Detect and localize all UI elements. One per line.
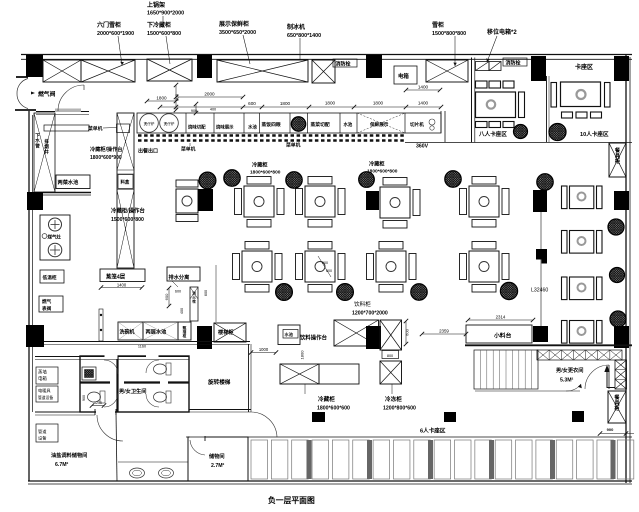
cabinet bbox=[178, 322, 191, 340]
dim row 2 bbox=[160, 106, 441, 108]
svg-text:煲仔炉: 煲仔炉 bbox=[144, 121, 155, 126]
band stripes bbox=[251, 440, 268, 479]
svg-text:饮料柜: 饮料柜 bbox=[354, 300, 371, 308]
svg-text:煤气灶: 煤气灶 bbox=[48, 234, 62, 241]
svg-text:冷藏柜: 冷藏柜 bbox=[369, 160, 385, 168]
column bbox=[614, 56, 629, 81]
svg-text:600: 600 bbox=[248, 101, 256, 106]
svg-text:600: 600 bbox=[204, 290, 208, 296]
svg-text:两菜水池: 两菜水池 bbox=[58, 178, 80, 186]
svg-text:电箱: 电箱 bbox=[398, 72, 409, 80]
hatched table bbox=[500, 282, 517, 299]
cart cabinet bbox=[608, 391, 626, 423]
grease separator 排水分离 bbox=[167, 267, 200, 281]
svg-text:排水分离: 排水分离 bbox=[169, 273, 190, 281]
wall cabinet with cross brace bbox=[609, 143, 626, 177]
worktop strip 冷藏柜/操作台 bbox=[117, 113, 134, 268]
svg-text:水池: 水池 bbox=[247, 124, 257, 131]
svg-text:八人卡座区: 八人卡座区 bbox=[478, 130, 507, 138]
drink counter 饮料操作台 bbox=[278, 325, 300, 345]
toilet bbox=[88, 391, 106, 403]
half column bbox=[536, 249, 547, 260]
column bbox=[26, 325, 44, 347]
svg-text:冷藏柜/操作台: 冷藏柜/操作台 bbox=[90, 145, 123, 153]
svg-text:移位电箱*2: 移位电箱*2 bbox=[487, 28, 517, 36]
svg-text:低温柜: 低温柜 bbox=[42, 274, 57, 281]
svg-text:2314: 2314 bbox=[496, 315, 506, 320]
gas meter 燃气表阀 bbox=[39, 296, 63, 312]
box 烧味切配 bbox=[185, 113, 187, 133]
svg-text:烧味展示: 烧味展示 bbox=[216, 124, 234, 131]
svg-text:2359: 2359 bbox=[439, 329, 449, 334]
band top line bbox=[186, 436, 632, 438]
svg-text:蒸笼4层: 蒸笼4层 bbox=[105, 273, 126, 281]
box 水池 bbox=[243, 113, 245, 133]
svg-text:卡座区: 卡座区 bbox=[575, 63, 593, 71]
stair direction arrow bbox=[475, 390, 580, 392]
booth table bbox=[562, 231, 603, 254]
svg-text:400: 400 bbox=[180, 308, 184, 314]
top-left door vestibule stub walls bbox=[16, 76, 28, 78]
svg-text:6.7M²: 6.7M² bbox=[55, 462, 69, 468]
hatched pot bbox=[291, 117, 305, 131]
wash basins bbox=[130, 468, 145, 478]
gray pass bar bbox=[55, 109, 81, 113]
svg-text:烧味切配: 烧味切配 bbox=[188, 124, 206, 131]
restroom exit door bbox=[96, 410, 115, 415]
svg-text:菜单机: 菜单机 bbox=[285, 142, 301, 149]
small dims bbox=[168, 288, 170, 306]
X counter left bbox=[280, 364, 319, 384]
svg-text:下冷藏柜: 下冷藏柜 bbox=[147, 21, 171, 29]
svg-text:2000: 2000 bbox=[204, 92, 215, 97]
svg-text:男/女更衣间: 男/女更衣间 bbox=[556, 366, 583, 374]
svg-text:料盒: 料盒 bbox=[121, 179, 130, 186]
svg-text:切片机: 切片机 bbox=[410, 121, 424, 128]
bottom outer wall bbox=[28, 480, 632, 482]
booth table bbox=[562, 277, 603, 300]
shelf unit bbox=[43, 60, 81, 82]
svg-text:保鲜展示: 保鲜展示 bbox=[369, 121, 389, 128]
restroom block 男/女卫生间 bbox=[80, 356, 189, 412]
leader lines from labels bbox=[118, 36, 122, 65]
shaft with X brace and vertical text bbox=[34, 113, 55, 192]
table cluster bbox=[460, 177, 510, 228]
svg-text:1800*600*600: 1800*600*600 bbox=[317, 406, 350, 412]
hatched table bbox=[411, 284, 427, 300]
svg-text:煲仔炉: 煲仔炉 bbox=[164, 121, 175, 126]
dark dividers bbox=[307, 440, 312, 479]
svg-text:600: 600 bbox=[322, 261, 328, 265]
column bbox=[197, 326, 212, 349]
table cluster bbox=[296, 242, 346, 293]
storage room 储物间 bbox=[188, 437, 248, 481]
box 蒸菜切配 bbox=[307, 113, 309, 133]
column bbox=[198, 189, 213, 211]
hatched strip bbox=[476, 62, 490, 71]
svg-text:管道: 管道 bbox=[38, 428, 47, 435]
column bbox=[533, 326, 548, 342]
top outer wall bbox=[21, 54, 632, 56]
svg-text:900: 900 bbox=[607, 427, 614, 432]
svg-text:900: 900 bbox=[191, 109, 197, 113]
svg-text:柜: 柜 bbox=[182, 333, 187, 338]
small table cluster bbox=[176, 180, 198, 187]
wall below sink bbox=[43, 192, 91, 194]
svg-text:菜单机: 菜单机 bbox=[180, 146, 196, 153]
pass counter dashed band bbox=[138, 134, 405, 137]
table cluster bbox=[367, 242, 417, 293]
column bbox=[26, 55, 43, 77]
counter end wall bbox=[440, 111, 442, 133]
svg-text:冷藏柜/操作台: 冷藏柜/操作台 bbox=[111, 207, 145, 215]
partition wall right of kitchen bbox=[471, 58, 473, 143]
hatched table bbox=[549, 124, 566, 141]
column bbox=[533, 190, 547, 212]
hatched table bbox=[276, 284, 293, 301]
toilet bbox=[154, 391, 172, 403]
svg-text:1400: 1400 bbox=[418, 101, 429, 106]
svg-text:1400: 1400 bbox=[117, 282, 127, 287]
L-shaped counter with X bbox=[334, 320, 379, 346]
svg-text:冷藏柜: 冷藏柜 bbox=[318, 395, 335, 403]
cabinet 低温柜 bbox=[40, 270, 64, 283]
svg-text:1000: 1000 bbox=[259, 347, 269, 352]
svg-text:六门雪柜: 六门雪柜 bbox=[97, 21, 121, 29]
hatched table bbox=[610, 268, 625, 283]
svg-text:1800: 1800 bbox=[300, 350, 305, 360]
svg-text:10人卡座区: 10人卡座区 bbox=[580, 130, 609, 138]
svg-text:电暖具: 电暖具 bbox=[38, 387, 51, 394]
box 烧味展示 bbox=[213, 113, 215, 133]
svg-text:男/女卫生间: 男/女卫生间 bbox=[119, 387, 146, 395]
ice maker 制冰机 bbox=[312, 60, 335, 83]
svg-text:1800: 1800 bbox=[280, 101, 291, 106]
column bbox=[531, 56, 546, 81]
svg-text:600: 600 bbox=[404, 328, 409, 335]
svg-text:400: 400 bbox=[210, 108, 216, 112]
hatched table bbox=[359, 172, 375, 188]
svg-text:蒸菜切配: 蒸菜切配 bbox=[310, 121, 330, 128]
svg-text:2000*600*1900: 2000*600*1900 bbox=[97, 31, 134, 37]
svg-text:蒸饭四眼: 蒸饭四眼 bbox=[261, 121, 281, 128]
electrical box 电箱 bbox=[394, 66, 417, 84]
svg-text:上锅架: 上锅架 bbox=[147, 1, 165, 9]
table cluster bbox=[233, 242, 283, 293]
svg-text:600: 600 bbox=[164, 293, 169, 300]
svg-text:管道设备: 管道设备 bbox=[38, 395, 53, 400]
changing room door arc bbox=[585, 365, 609, 389]
800 spacer box bbox=[382, 351, 399, 359]
svg-text:1800*600*900: 1800*600*900 bbox=[90, 155, 122, 161]
booth table bbox=[562, 321, 603, 344]
counter below entry wall bbox=[44, 125, 89, 131]
svg-text:1800*600*800: 1800*600*800 bbox=[367, 169, 398, 175]
svg-text:650*800*1400: 650*800*1400 bbox=[287, 33, 321, 39]
black unit bbox=[366, 326, 381, 349]
column bbox=[614, 326, 629, 348]
display cabinet 展示保鲜柜 bbox=[217, 60, 308, 82]
dishwasher 洗碗机 bbox=[118, 322, 143, 340]
column bbox=[27, 192, 43, 210]
svg-text:消防栓: 消防栓 bbox=[336, 61, 351, 68]
svg-text:1500*600*800: 1500*600*800 bbox=[111, 217, 144, 223]
svg-text:两层水池: 两层水池 bbox=[146, 328, 168, 336]
svg-text:柜: 柜 bbox=[615, 157, 621, 165]
svg-text:储物间: 储物间 bbox=[209, 452, 225, 460]
serving counter outline bbox=[137, 113, 441, 133]
column bbox=[366, 191, 379, 210]
svg-text:雪柜: 雪柜 bbox=[432, 21, 444, 29]
wall above restroom bbox=[35, 356, 189, 358]
svg-text:栓: 栓 bbox=[192, 299, 196, 304]
floor line right section bbox=[465, 344, 632, 346]
svg-text:井: 井 bbox=[44, 148, 49, 155]
table cluster bbox=[380, 178, 420, 229]
svg-text:1650*900*2000: 1650*900*2000 bbox=[147, 11, 184, 17]
8-person booth 八人卡座区 bbox=[476, 81, 525, 128]
booth table bbox=[562, 186, 603, 209]
wall line bbox=[540, 212, 542, 326]
svg-text:1800: 1800 bbox=[156, 96, 167, 101]
right outer wall bbox=[625, 55, 627, 484]
svg-text:600: 600 bbox=[175, 290, 181, 294]
svg-text:6人卡座区: 6人卡座区 bbox=[420, 427, 446, 435]
small counter 小料台 bbox=[466, 325, 532, 343]
shelf unit bbox=[81, 60, 135, 82]
svg-text:1800*600*800: 1800*600*800 bbox=[250, 170, 281, 176]
table cluster bbox=[460, 242, 510, 293]
svg-text:燃气: 燃气 bbox=[42, 298, 52, 305]
dim 2314 bbox=[468, 319, 533, 321]
escalator lower section bbox=[615, 360, 627, 389]
svg-text:1400: 1400 bbox=[418, 85, 429, 90]
hatched table bbox=[608, 219, 624, 235]
svg-text:L32460: L32460 bbox=[531, 288, 548, 294]
svg-text:1800: 1800 bbox=[373, 101, 384, 106]
escalator strip bbox=[537, 350, 622, 360]
svg-text:管: 管 bbox=[35, 142, 40, 149]
svg-text:900: 900 bbox=[82, 395, 86, 401]
svg-text:冷冻柜: 冷冻柜 bbox=[385, 395, 402, 403]
svg-text:水池: 水池 bbox=[343, 121, 353, 128]
stove 煤气灶 with two burners bbox=[40, 215, 70, 260]
divider wall bbox=[546, 76, 548, 142]
svg-text:5.3M²: 5.3M² bbox=[560, 378, 574, 384]
fire hydrant label box 2 bbox=[503, 58, 527, 66]
shaft strip bbox=[190, 287, 198, 321]
hatched table bbox=[514, 125, 528, 139]
column bbox=[197, 55, 212, 78]
column bbox=[444, 412, 456, 422]
left outer wall lower bbox=[28, 111, 30, 481]
svg-text:旋转楼梯: 旋转楼梯 bbox=[207, 378, 231, 386]
column bbox=[366, 55, 382, 78]
stall door arcs bbox=[104, 360, 118, 374]
steamer 蒸笼4层 bbox=[100, 269, 145, 282]
entry door gaps bbox=[105, 355, 118, 360]
table cluster bbox=[296, 177, 346, 228]
hatched table bbox=[199, 172, 216, 189]
svg-text:1800: 1800 bbox=[325, 101, 336, 106]
wall y=341 bbox=[44, 341, 250, 343]
svg-text:1160: 1160 bbox=[138, 345, 146, 349]
svg-text:柜: 柜 bbox=[614, 404, 620, 412]
svg-text:1500*600*800: 1500*600*800 bbox=[147, 31, 181, 37]
hatched table bbox=[337, 284, 354, 301]
door arc to band bbox=[251, 412, 277, 437]
tray box 料盒 bbox=[118, 175, 133, 189]
box 保鲜展示 dashed bbox=[356, 113, 358, 133]
freezer 雪柜 bbox=[426, 60, 468, 82]
svg-text:燃气阀: 燃气阀 bbox=[38, 90, 56, 98]
double door arcs bbox=[17, 79, 28, 94]
svg-text:小料台: 小料台 bbox=[493, 332, 512, 340]
svg-text:3500*650*2000: 3500*650*2000 bbox=[219, 30, 256, 36]
column bbox=[572, 411, 584, 422]
hatched table bbox=[286, 172, 302, 188]
hatched table bbox=[224, 170, 240, 186]
svg-text:1500*800*800: 1500*800*800 bbox=[432, 31, 466, 37]
toilet bbox=[154, 363, 172, 375]
spiral stair room 旋转楼梯 bbox=[248, 344, 250, 412]
corridor walls bbox=[35, 411, 95, 413]
column bbox=[614, 191, 629, 210]
svg-text:蒸墙: 蒸墙 bbox=[38, 369, 47, 376]
wok burner 煲仔炉 bbox=[160, 114, 179, 133]
stair cabinet 楼梯柜 bbox=[214, 323, 246, 342]
svg-text:电箱: 电箱 bbox=[38, 375, 47, 382]
svg-text:1250: 1250 bbox=[94, 401, 102, 405]
svg-text:冷藏柜: 冷藏柜 bbox=[252, 161, 268, 169]
svg-text:2.7M²: 2.7M² bbox=[211, 463, 225, 469]
staircase bbox=[474, 350, 538, 389]
svg-text:1200*800*600: 1200*800*600 bbox=[383, 406, 416, 412]
svg-text:360V: 360V bbox=[416, 144, 429, 150]
svg-text:油盐调料储物间: 油盐调料储物间 bbox=[51, 451, 87, 459]
svg-text:1200*700*2000: 1200*700*2000 bbox=[352, 311, 388, 317]
fridge 冷藏柜 bbox=[319, 364, 359, 384]
hatched table bbox=[537, 174, 553, 190]
svg-text:展示保鲜柜: 展示保鲜柜 bbox=[219, 20, 249, 28]
box 切片机 bbox=[404, 113, 406, 133]
mop sink bbox=[82, 367, 96, 380]
svg-text:消防栓: 消防栓 bbox=[506, 60, 521, 67]
svg-text:出餐出口: 出餐出口 bbox=[138, 148, 158, 155]
box 水池 bbox=[339, 113, 341, 133]
column bbox=[312, 412, 325, 422]
kitchen door arc bbox=[58, 85, 84, 111]
left cabinets 蒸墙电箱etc bbox=[36, 367, 58, 384]
svg-text:饮料操作台: 饮料操作台 bbox=[299, 334, 328, 342]
sink 两菜水池 bbox=[56, 175, 90, 189]
svg-text:洗碗机: 洗碗机 bbox=[120, 329, 135, 336]
hood pipe bbox=[99, 309, 103, 341]
table cluster bbox=[235, 177, 285, 228]
shelf unit 上锅架/下冷藏柜 bbox=[147, 59, 192, 81]
svg-text:设备: 设备 bbox=[38, 435, 47, 442]
wok burner 煲仔炉 bbox=[140, 114, 159, 133]
svg-text:600: 600 bbox=[326, 269, 332, 273]
hatched table bbox=[445, 171, 461, 187]
booth floor line bbox=[405, 142, 632, 144]
dim 2359 bbox=[422, 333, 466, 335]
dim 1000 bbox=[251, 352, 276, 354]
table diag dim 600 bbox=[318, 256, 331, 277]
svg-text:水池: 水池 bbox=[285, 331, 294, 338]
svg-text:菜单机: 菜单机 bbox=[87, 125, 103, 132]
dim row bbox=[147, 100, 176, 102]
svg-text:表阀: 表阀 bbox=[41, 305, 52, 312]
kitchen entry wall bbox=[36, 111, 89, 113]
svg-text:600: 600 bbox=[175, 93, 180, 101]
svg-text:800: 800 bbox=[387, 354, 393, 358]
sink 两层水池 bbox=[143, 322, 178, 340]
svg-text:制冰机: 制冰机 bbox=[287, 23, 305, 31]
fire hydrant label box bbox=[333, 59, 357, 67]
10-person booth bbox=[551, 82, 610, 118]
svg-text:负一层平面图: 负一层平面图 bbox=[268, 495, 315, 505]
box 蒸饭四眼 bbox=[259, 113, 261, 133]
svg-text:楼梯柜: 楼梯柜 bbox=[218, 328, 234, 336]
hatched table bbox=[610, 311, 626, 327]
